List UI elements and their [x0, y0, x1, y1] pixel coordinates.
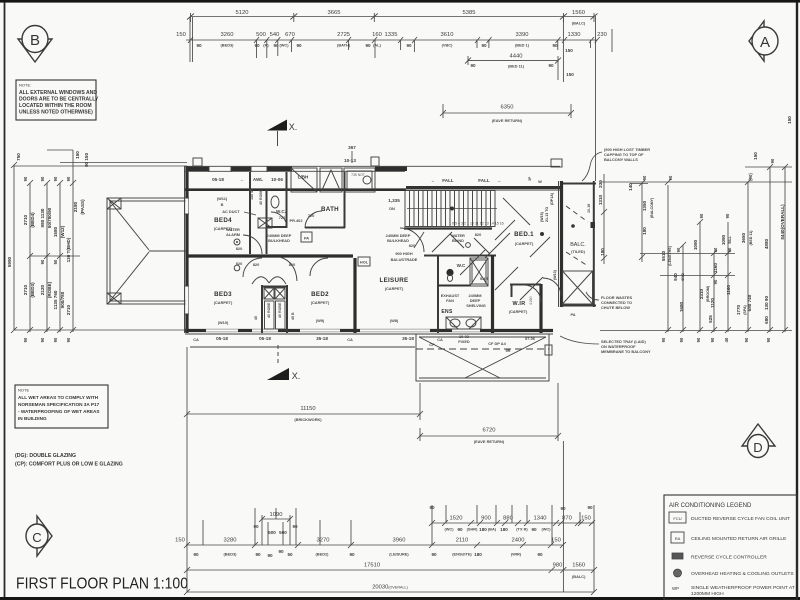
- svg-text:1160: 1160: [713, 263, 718, 273]
- note box wet areas: [15, 385, 108, 428]
- svg-text:90: 90: [725, 213, 730, 218]
- svg-text:HOL: HOL: [360, 260, 369, 265]
- bottom row F 20030 overall: [184, 585, 597, 596]
- svg-text:RA: RA: [675, 536, 681, 541]
- svg-text:145 45: 145 45: [250, 189, 254, 200]
- svg-text:90: 90: [255, 552, 261, 557]
- svg-text:(EAVE RETURN): (EAVE RETURN): [492, 118, 523, 123]
- frame top bar: [0, 0, 800, 3]
- svg-text:90: 90: [253, 524, 259, 529]
- svg-text:1 6 5 4 3 2 1 10 11 12 13 14: 1 6 5 4 3 2 1 10 11 12 13 14 15 16: [449, 222, 504, 226]
- svg-text:5510: 5510: [661, 250, 666, 261]
- svg-text:BED2: BED2: [311, 291, 329, 298]
- svg-text:4880: 4880: [764, 238, 769, 249]
- svg-text:5990: 5990: [7, 256, 12, 267]
- svg-text:90: 90: [537, 552, 543, 557]
- svg-text:130 90: 130 90: [764, 296, 769, 310]
- svg-text:2710: 2710: [66, 304, 71, 315]
- stair balustrade note: [391, 232, 424, 262]
- svg-text:90: 90: [278, 549, 284, 554]
- svg-text:90: 90: [696, 337, 701, 342]
- note box windows: [16, 80, 99, 120]
- svg-text:820: 820: [409, 243, 416, 248]
- svg-text:90: 90: [661, 337, 666, 342]
- svg-text:(WC): (WC): [541, 527, 551, 532]
- svg-text:OVERHEAD HEATING & COOLING OUT: OVERHEAD HEATING & COOLING OUTLETS: [691, 571, 794, 577]
- svg-text:2120: 2120: [40, 284, 45, 295]
- bottom wall window labels: [193, 334, 536, 344]
- svg-text:(AL): (AL): [373, 43, 381, 48]
- svg-text:PA: PA: [304, 236, 309, 241]
- frame bottom bar: [0, 597, 800, 600]
- svg-text:05-18: 05-18: [216, 336, 228, 341]
- balcony interior: [563, 204, 596, 317]
- svg-text:90: 90: [53, 337, 58, 342]
- svg-text:50: 50: [53, 259, 58, 264]
- top wall solid piers: [186, 167, 407, 171]
- chimney boxes above top wall: [193, 158, 202, 166]
- brickwork 11150 dim: [184, 347, 423, 422]
- stairs: [388, 191, 503, 227]
- svg-text:B: B: [221, 202, 224, 207]
- svg-text:40 ROBE: 40 ROBE: [278, 302, 282, 318]
- svg-text:90: 90: [431, 552, 437, 557]
- svg-text:(WC): (WC): [279, 43, 289, 48]
- svg-text:820: 820: [253, 262, 260, 267]
- svg-text:820: 820: [236, 246, 243, 251]
- svg-text:90: 90: [676, 247, 681, 252]
- svg-text:(W15): (W15): [540, 211, 544, 222]
- svg-text:FIRST FLOOR PLAN 1:100: FIRST FLOOR PLAN 1:100: [16, 576, 188, 593]
- svg-text:BULKHEAD: BULKHEAD: [268, 238, 290, 243]
- svg-text:(TX R): (TX R): [516, 527, 528, 532]
- svg-text:367: 367: [348, 145, 356, 150]
- svg-text:680 740: 680 740: [747, 294, 752, 311]
- svg-text:750: 750: [16, 153, 21, 161]
- svg-text:CA: CA: [437, 337, 443, 342]
- svg-text:DN: DN: [389, 206, 395, 211]
- svg-text:SILL: SILL: [728, 235, 732, 244]
- ens suite area: [424, 255, 496, 333]
- top dimension row 1: [187, 10, 598, 26]
- svg-text:(WC): (WC): [444, 527, 454, 532]
- svg-text:X.: X.: [292, 371, 301, 381]
- svg-text:150: 150: [175, 538, 185, 544]
- svg-text:1310: 1310: [598, 194, 603, 205]
- svg-text:40 ROBE: 40 ROBE: [267, 302, 271, 318]
- svg-text:45 B: 45 B: [291, 312, 295, 320]
- svg-text:(BALC): (BALC): [572, 21, 586, 26]
- svg-text:90: 90: [552, 43, 558, 48]
- bottom row E 17510: [184, 563, 597, 580]
- door arcs mid wall: [243, 235, 328, 281]
- svg-text:820: 820: [475, 232, 482, 237]
- svg-text:BULKHEAD: BULKHEAD: [387, 238, 409, 243]
- svg-text:UNLESS NOTED OTHERWISE): UNLESS NOTED OTHERWISE): [19, 110, 93, 116]
- fall strip over stairs: [405, 176, 560, 190]
- svg-text:1770: 1770: [736, 304, 741, 315]
- svg-text:720: 720: [308, 213, 315, 218]
- section cut marker X bottom: [267, 345, 300, 381]
- svg-text:820: 820: [289, 262, 296, 267]
- svg-text:90: 90: [365, 43, 371, 48]
- interior wall mid horizontal: [187, 254, 353, 257]
- svg-text:(W8): (W8): [390, 318, 399, 323]
- svg-text:(BED2): (BED2): [316, 552, 330, 557]
- svg-text:1090: 1090: [693, 239, 698, 250]
- svg-text:(CP): COMFORT PLUS OR LOW E GL: (CP): COMFORT PLUS OR LOW E GLAZING: [15, 462, 123, 468]
- svg-text:3260: 3260: [221, 32, 234, 38]
- svg-text:(VBC): (VBC): [442, 43, 454, 48]
- svg-text:FALL: FALL: [442, 178, 454, 183]
- glazing note: [15, 453, 123, 468]
- svg-text:X.: X.: [289, 122, 298, 132]
- bed2 right wall: [353, 258, 356, 333]
- svg-text:FAN: FAN: [446, 298, 454, 303]
- svg-text:BALC.: BALC.: [570, 242, 586, 248]
- svg-text:(W12): (W12): [60, 225, 65, 238]
- svg-text:CEILING MOUNTED RETURN AIR GRI: CEILING MOUNTED RETURN AIR GRILLE: [691, 536, 787, 542]
- top row 2 ticks: [188, 37, 600, 43]
- svg-text:1680: 1680: [679, 301, 684, 312]
- hol box: [358, 257, 370, 266]
- svg-text:150: 150: [787, 116, 792, 124]
- svg-text:(W9): (W9): [316, 318, 325, 323]
- svg-text:11150: 11150: [300, 406, 315, 412]
- svg-text:90: 90: [40, 176, 45, 181]
- svg-text:1135 760: 1135 760: [53, 290, 58, 309]
- svg-text:(CARPET): (CARPET): [515, 241, 534, 246]
- svg-text:(CARPET): (CARPET): [214, 226, 233, 231]
- balcony walls: [559, 181, 597, 307]
- floor waste annotations right: [560, 292, 651, 354]
- svg-text:BED4: BED4: [214, 217, 232, 224]
- svg-text:(TILED): (TILED): [571, 249, 586, 254]
- svg-text:680: 680: [764, 316, 769, 324]
- svg-text:(CARPET): (CARPET): [214, 300, 233, 305]
- svg-text:BLIND: BLIND: [452, 238, 464, 243]
- svg-text:ENS: ENS: [441, 309, 453, 315]
- svg-text:980: 980: [553, 563, 563, 569]
- svg-text:900 HIGH: 900 HIGH: [395, 251, 412, 256]
- bulkhead note 1: [267, 233, 292, 243]
- svg-text:2710: 2710: [23, 214, 28, 225]
- eave return 6720 dim: [417, 383, 561, 444]
- svg-text:2110: 2110: [456, 538, 468, 544]
- svg-text:90: 90: [766, 337, 771, 342]
- svg-text:2180: 2180: [73, 201, 78, 212]
- svg-text:980 1130: 980 1130: [40, 208, 45, 227]
- robe box left: [258, 218, 272, 228]
- section marker A: [749, 21, 778, 61]
- svg-text:BED.1: BED.1: [514, 231, 534, 238]
- section marker D: [742, 424, 775, 458]
- svg-text:CHUTE BELOW: CHUTE BELOW: [601, 305, 630, 310]
- svg-text:525: 525: [708, 315, 713, 323]
- svg-text:FIXED: FIXED: [458, 339, 470, 344]
- svg-text:180: 180: [500, 527, 508, 532]
- garage roof below: [416, 334, 552, 381]
- svg-text:(R): (R): [263, 43, 269, 48]
- svg-text:20030(OVERALL): 20030(OVERALL): [372, 585, 408, 591]
- section marker B: [18, 26, 52, 63]
- stair lower door arc: [400, 228, 424, 252]
- svg-text:17510: 17510: [364, 563, 380, 569]
- svg-text:W.IR: W.IR: [513, 301, 526, 307]
- svg-text:BED3: BED3: [214, 291, 232, 298]
- svg-text:C: C: [32, 530, 41, 545]
- svg-text:BATH: BATH: [321, 206, 339, 213]
- svg-text:90: 90: [296, 43, 302, 48]
- top wall inner face: [185, 188, 406, 191]
- svg-text:90: 90: [429, 505, 435, 510]
- svg-text:90: 90: [196, 43, 202, 48]
- svg-text:3610: 3610: [441, 32, 454, 38]
- smoke detector mid: [234, 265, 240, 271]
- svg-text:140: 140: [628, 183, 633, 191]
- svg-text:ALL WET AREAS TO COMPLY WITH: ALL WET AREAS TO COMPLY WITH: [18, 395, 99, 400]
- svg-text:AC DUCT: AC DUCT: [222, 209, 240, 214]
- svg-text:90: 90: [727, 247, 732, 252]
- svg-text:90: 90: [40, 259, 45, 264]
- svg-text:1,335: 1,335: [388, 198, 400, 203]
- svg-text:FCU: FCU: [673, 516, 681, 521]
- svg-text:21-13 TO: 21-13 TO: [545, 207, 549, 222]
- svg-text:(BALC): (BALC): [572, 574, 586, 579]
- svg-text:3665: 3665: [328, 10, 341, 16]
- svg-text:90: 90: [744, 337, 749, 342]
- svg-text:50: 50: [287, 552, 293, 557]
- svg-text:735 NOT: 735 NOT: [351, 173, 365, 177]
- top row 2 extension lines: [190, 16, 596, 181]
- svg-text:150: 150: [75, 151, 80, 159]
- svg-text:CA: CA: [347, 337, 353, 342]
- svg-text:(CARPET): (CARPET): [311, 300, 330, 305]
- bed1 diagonal ceiling lines: [432, 198, 550, 300]
- svg-text:230: 230: [597, 32, 607, 38]
- svg-text:(BED3): (BED3): [221, 43, 235, 48]
- svg-text:500: 500: [268, 530, 276, 535]
- top dimension row 3 4440: [465, 54, 574, 81]
- svg-text:SINGLE WEATHERPROOF POWER POIN: SINGLE WEATHERPROOF POWER POINT AT: [691, 585, 795, 591]
- left dim block: [7, 150, 187, 342]
- bottom wall window gaps (white): [206, 329, 480, 331]
- svg-text:90: 90: [699, 213, 704, 218]
- svg-text:150: 150: [551, 538, 561, 544]
- svg-text:3P: 3P: [528, 176, 532, 181]
- svg-text:90: 90: [713, 247, 718, 252]
- svg-text:8440(OVERALL): 8440(OVERALL): [780, 204, 785, 240]
- svg-text:90: 90: [710, 337, 715, 342]
- svg-text:2310: 2310: [699, 288, 704, 299]
- svg-text:45: 45: [254, 316, 258, 320]
- svg-text:(BED3): (BED3): [224, 552, 238, 557]
- svg-text:40: 40: [724, 337, 729, 342]
- eave line below: [190, 346, 415, 348]
- svg-text:LEISURE: LEISURE: [380, 277, 409, 284]
- bottom dim row D right: [429, 506, 595, 532]
- svg-text:NOTE: NOTE: [18, 388, 29, 393]
- svg-text:90: 90: [66, 176, 71, 181]
- svg-text:1200MM HIGH: 1200MM HIGH: [691, 591, 724, 597]
- svg-text:BALUSTRADE: BALUSTRADE: [391, 257, 418, 262]
- svg-text:90: 90: [531, 527, 537, 532]
- svg-text:(ENSUITE): (ENSUITE): [452, 552, 472, 557]
- svg-text:4440: 4440: [510, 54, 523, 60]
- svg-text:10-06: 10-06: [271, 177, 283, 182]
- svg-text:10-13: 10-13: [344, 158, 356, 163]
- svg-text:(BA): (BA): [488, 527, 497, 532]
- wc room walls: [266, 172, 303, 228]
- svg-text:540: 540: [270, 32, 280, 38]
- svg-text:- WATERPROOFING OF WET AREAS: - WATERPROOFING OF WET AREAS: [18, 409, 100, 414]
- svg-text:BALCONY WALLS: BALCONY WALLS: [604, 157, 638, 162]
- svg-text:1520: 1520: [450, 516, 463, 522]
- svg-text:(LEISURE): (LEISURE): [389, 552, 409, 557]
- svg-text:150: 150: [581, 516, 591, 522]
- bath fixtures along top wall: [291, 168, 375, 192]
- svg-text:(LENGTHS): (LENGTHS): [668, 245, 672, 265]
- svg-text:(90): (90): [748, 173, 753, 181]
- svg-text:90: 90: [406, 43, 412, 48]
- svg-text:NOTE:: NOTE:: [19, 83, 31, 88]
- svg-text:(BED 11): (BED 11): [508, 64, 525, 69]
- svg-text:(W13): (W13): [553, 269, 557, 280]
- eave return 6350 dim: [440, 104, 574, 123]
- bed1 rotated labels: [540, 192, 557, 280]
- svg-text:1120: 1120: [710, 298, 715, 308]
- svg-text:4160: 4160: [529, 297, 533, 305]
- ac duct label: [222, 189, 263, 215]
- svg-text:900/780: 900/780: [60, 291, 65, 308]
- svg-text:1090: 1090: [721, 234, 726, 245]
- top dimension row 2: [176, 29, 612, 53]
- svg-text:→: →: [497, 178, 502, 183]
- legend box: [664, 495, 797, 600]
- bottom dim block main row C: [175, 538, 566, 559]
- svg-text:230: 230: [598, 180, 603, 188]
- svg-text:500: 500: [256, 32, 266, 38]
- passage right door: [543, 278, 561, 296]
- section cut marker X top: [267, 120, 297, 147]
- svg-text:1330: 1330: [568, 32, 581, 38]
- svg-text:10-18: 10-18: [587, 204, 591, 213]
- svg-text:CP: CP: [429, 342, 435, 347]
- svg-text:(SHR): (SHR): [467, 527, 479, 532]
- svg-text:90: 90: [254, 43, 260, 48]
- svg-text:90: 90: [457, 527, 463, 532]
- landing / hall fixtures: [226, 227, 312, 245]
- house exterior walls: [184, 166, 561, 347]
- svg-text:(BALCONY): (BALCONY): [650, 197, 654, 218]
- top wall window labels: [212, 175, 309, 183]
- svg-text:9R: 9R: [506, 348, 511, 353]
- svg-text:CF DP A4: CF DP A4: [488, 341, 506, 346]
- svg-text:90: 90: [53, 176, 58, 181]
- svg-text:AWL: AWL: [253, 177, 263, 182]
- svg-text:2400: 2400: [512, 538, 525, 544]
- bulkhead note 2: [386, 233, 411, 243]
- svg-text:W: W: [538, 179, 542, 184]
- roof wing left: [107, 198, 187, 304]
- svg-text:(BED4): (BED4): [30, 212, 35, 228]
- svg-text:MEMBRANE TO BALCONY: MEMBRANE TO BALCONY: [601, 349, 651, 354]
- svg-text:6350: 6350: [501, 105, 514, 111]
- svg-text:(CARPET): (CARPET): [385, 286, 404, 291]
- svg-text:(EAVE RETURN): (EAVE RETURN): [474, 439, 505, 444]
- duct wall: [266, 190, 268, 254]
- svg-text:2710: 2710: [23, 284, 28, 295]
- svg-text:3390: 3390: [516, 32, 529, 38]
- svg-text:90: 90: [23, 176, 28, 181]
- left wall: [185, 166, 188, 333]
- svg-text:35-18: 35-18: [316, 336, 328, 341]
- svg-text:DOORS ARE TO BE CENTRALLY: DOORS ARE TO BE CENTRALLY: [19, 97, 99, 103]
- svg-text:PA: PA: [570, 312, 575, 317]
- svg-text:(DP1A): (DP1A): [550, 192, 554, 205]
- svg-text:180: 180: [600, 248, 605, 256]
- svg-text:180: 180: [479, 527, 487, 532]
- svg-text:180: 180: [474, 552, 482, 557]
- svg-text:SHR: SHR: [480, 276, 488, 281]
- svg-text:1335: 1335: [385, 32, 398, 38]
- svg-text:150: 150: [753, 152, 758, 160]
- svg-text:150: 150: [565, 48, 573, 53]
- bottom wall: [185, 329, 553, 332]
- svg-text:3960: 3960: [393, 538, 406, 544]
- svg-text:90: 90: [349, 552, 355, 557]
- svg-text:90: 90: [548, 63, 554, 68]
- svg-text:(W11): (W11): [217, 196, 228, 201]
- svg-text:5385: 5385: [463, 10, 476, 16]
- svg-text:PR.402: PR.402: [290, 218, 304, 223]
- svg-text:W.C: W.C: [457, 263, 466, 268]
- svg-text:5120: 5120: [236, 10, 249, 16]
- svg-text:NORSEMAN SPECIFICATION 3A P17: NORSEMAN SPECIFICATION 3A P17: [18, 402, 100, 407]
- svg-text:(CARPET): (CARPET): [509, 309, 528, 314]
- bath room: [305, 172, 345, 228]
- svg-text:(PASS): (PASS): [80, 199, 85, 215]
- svg-text:1560: 1560: [572, 10, 585, 16]
- svg-text:FALL: FALL: [478, 178, 490, 183]
- svg-text:SHELVING: SHELVING: [466, 303, 486, 308]
- svg-text:REVERSE CYCLE CONTROLLER: REVERSE CYCLE CONTROLLER: [691, 555, 767, 561]
- svg-text:90: 90: [267, 553, 273, 558]
- svg-text:(WIR): (WIR): [511, 552, 522, 557]
- svg-text:←: ←: [431, 178, 436, 183]
- wir: [509, 284, 541, 333]
- svg-text:B: B: [30, 32, 40, 49]
- svg-text:3270: 3270: [317, 538, 330, 544]
- svg-text:DUCTED REVERSE CYCLE FAN COIL: DUCTED REVERSE CYCLE FAN COIL UNIT: [691, 516, 790, 522]
- svg-text:3650: 3650: [741, 232, 746, 243]
- svg-text:130 T(BHD): 130 T(BHD): [66, 237, 71, 262]
- svg-text:90: 90: [481, 43, 487, 48]
- svg-text:90: 90: [668, 175, 673, 180]
- svg-text:(W10): (W10): [218, 320, 229, 325]
- svg-text:90: 90: [292, 524, 298, 529]
- svg-text:2725: 2725: [337, 32, 350, 38]
- svg-text:90: 90: [679, 337, 684, 342]
- svg-text:ALL EXTERNAL WINDOWS AND: ALL EXTERNAL WINDOWS AND: [19, 90, 97, 96]
- svg-text:180: 180: [642, 227, 647, 235]
- frame right line: [796, 2, 798, 597]
- svg-text:90: 90: [23, 337, 28, 342]
- svg-text:1160: 1160: [726, 285, 731, 295]
- svg-text:05-18: 05-18: [212, 177, 224, 182]
- svg-text:(BED 11): (BED 11): [749, 230, 753, 246]
- top wall outer: [184, 165, 560, 167]
